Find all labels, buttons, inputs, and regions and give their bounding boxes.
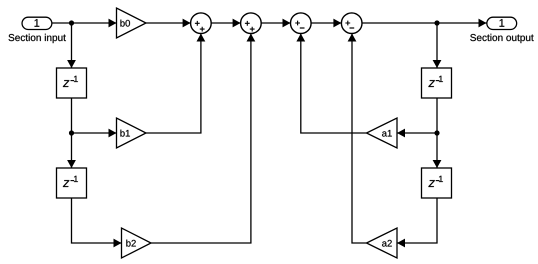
- wire: delay Z1 to junction to gain b1: [72, 98, 117, 137]
- wire: gain b0 to sum 1: [146, 19, 191, 28]
- delay block z^-1 (right upper): [422, 68, 452, 98]
- wire: delay Z2 to gain b2: [72, 198, 122, 247]
- wire: inport to gain b0: [52, 19, 117, 28]
- wire: junction down to delay Z1: [67, 23, 76, 68]
- node: junction at output branch: [434, 20, 439, 25]
- outport 1 "Section output": [470, 17, 533, 43]
- wire: sum 3 to sum 4: [311, 19, 341, 28]
- wire: gain a1 up to sum 3: [296, 34, 366, 134]
- sum 4 (+,-): [341, 13, 362, 34]
- node: junction at input branch: [69, 20, 74, 25]
- delay block z^-1 (left lower): [57, 168, 87, 198]
- gain b1: [117, 118, 147, 148]
- delay block z^-1 (left upper): [57, 68, 87, 98]
- wire: gain a2 up to sum 4: [348, 34, 367, 244]
- delay block z^-1 (right lower): [422, 168, 452, 198]
- wire: sum 2 to sum 3: [261, 19, 290, 28]
- wire: sum 1 to sum 2: [211, 19, 240, 28]
- wire: output junction down to delay Z3: [433, 23, 442, 68]
- wire: junction down to delay Z4: [433, 133, 442, 168]
- wire: sum 4 to outport: [362, 19, 487, 28]
- gain a2: [367, 228, 398, 258]
- wire: delay Z4 to gain a2: [397, 198, 437, 247]
- gain b2: [122, 228, 152, 258]
- wire: junction down to delay Z2: [67, 133, 76, 168]
- wire: delay Z3 to junction to gain a1: [397, 98, 437, 137]
- node: junction at x(n-1) branch: [69, 130, 74, 135]
- wire: gain b1 up to sum 1: [146, 34, 205, 134]
- wire: gain b2 up to sum 2: [151, 34, 255, 244]
- node: junction at y(n-1) branch: [434, 130, 439, 135]
- sum 3 (+,-): [291, 13, 312, 34]
- sum 1 (+,+): [191, 13, 212, 34]
- inport 1 "Section input": [9, 17, 66, 43]
- sum 2 (+,+): [241, 13, 262, 34]
- gain b0: [117, 8, 147, 38]
- gain a1: [367, 118, 398, 148]
